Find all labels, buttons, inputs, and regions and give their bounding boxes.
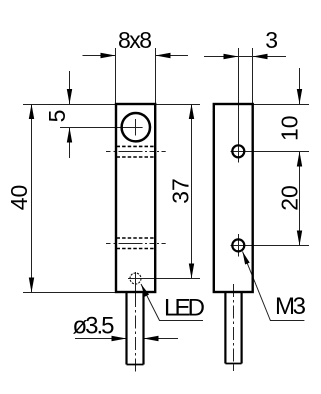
- front view body: [116, 104, 155, 292]
- hole2 crosshair vertical: [238, 234, 240, 257]
- M3 leader arrowhead: [243, 252, 250, 265]
- side view body: [214, 104, 253, 292]
- extension line bottom-left (40 dim, y=292.5): [23, 292, 115, 294]
- cable centerline side view: [233, 284, 235, 371]
- hidden coil line upper 2: [117, 156, 155, 158]
- cable sides side view: [225, 292, 241, 364]
- arrow up 20 top: [297, 152, 302, 167]
- LED circle (hidden, dashed): [130, 273, 141, 284]
- svg-text:8x8: 8x8: [118, 27, 152, 53]
- hidden coil line upper 1: [117, 145, 155, 147]
- svg-text:20: 20: [276, 185, 302, 211]
- arrow up 37 top: [189, 104, 194, 119]
- dimension tail 8x8 left: [83, 55, 116, 57]
- arrow down 20 bottom: [297, 231, 302, 246]
- arrow down 10: [297, 89, 302, 104]
- svg-text:LED: LED: [164, 295, 205, 322]
- svg-text:ø3.5: ø3.5: [73, 313, 115, 340]
- arrow right 3: [224, 54, 239, 59]
- dimension line 10 upper segment: [299, 68, 301, 104]
- hidden coil line lower 2: [117, 248, 155, 250]
- mounting hole M3 lower: [232, 239, 244, 251]
- svg-text:40: 40: [6, 185, 32, 211]
- centerline upper hole zone: [106, 151, 166, 153]
- centerline lower hole zone: [106, 243, 166, 245]
- svg-text:10: 10: [276, 115, 302, 141]
- svg-text:M3: M3: [275, 293, 306, 320]
- dimension line 37: [191, 104, 193, 279]
- arrow right 8x8: [101, 53, 116, 58]
- arrow left 3: [253, 54, 268, 59]
- cable bottom edge front view: [127, 364, 144, 366]
- extension line hole1 axis (y=151.5): [231, 151, 310, 153]
- hidden coil line lower 1: [117, 237, 155, 239]
- LED leader line: [141, 284, 203, 321]
- arrow down 40 bottom: [29, 278, 34, 293]
- extension line top-left (40 dim, y=104.5): [23, 104, 115, 106]
- dimension tail 8x8 right: [156, 55, 189, 57]
- arrow down 5 top: [67, 89, 72, 104]
- dimension line 5 upper segment: [69, 71, 71, 104]
- extension line 8x8 right (x=155.5): [155, 48, 157, 104]
- dimension line 20: [299, 152, 301, 246]
- mounting hole M3 upper: [232, 145, 244, 157]
- cable centerline front view: [135, 294, 137, 372]
- sensing circle crosshair vertical: [135, 119, 137, 136]
- M3 leader line: [243, 252, 305, 321]
- dimension line 40: [31, 104, 33, 292]
- arrow up 40 top: [29, 104, 34, 119]
- extension line 3 at face (x=252.5): [252, 48, 254, 104]
- cable bottom edge side view: [225, 363, 241, 365]
- arrow left ø3.5: [144, 336, 159, 341]
- arrow right ø3.5: [112, 336, 127, 341]
- extension line 37 top (y=104.5 right of front body): [156, 104, 201, 106]
- extension line 8x8 left (x=115.5): [115, 48, 117, 104]
- dimension line 5 lower segment: [69, 128, 71, 159]
- arrow left 8x8: [156, 53, 171, 58]
- LED centerline vertical: [135, 272, 137, 297]
- extension line hole2 axis (y=245.5): [231, 245, 310, 247]
- arrow up 5 bottom: [67, 128, 72, 143]
- arrow down 37 bottom: [189, 264, 194, 279]
- extension line 10 top (y=104.5 right of side body): [253, 104, 309, 106]
- svg-text:5: 5: [44, 110, 70, 123]
- extension line at circle center (5 dim, y=127.5): [60, 127, 143, 129]
- cable sides front view: [127, 292, 144, 365]
- dimension tail ø3.5 left: [75, 338, 127, 340]
- svg-text:3: 3: [265, 27, 278, 53]
- extension line 3 at hole axis (x=238.5): [238, 48, 240, 163]
- svg-text:37: 37: [168, 178, 194, 204]
- LED leader arrowhead: [141, 284, 149, 297]
- LED centerline horizontal / 37 bottom extension (y=278.5): [128, 278, 200, 280]
- sensing face circle: [122, 113, 150, 141]
- dimension tail ø3.5 right: [144, 338, 179, 340]
- dimension line 3: [204, 56, 286, 58]
